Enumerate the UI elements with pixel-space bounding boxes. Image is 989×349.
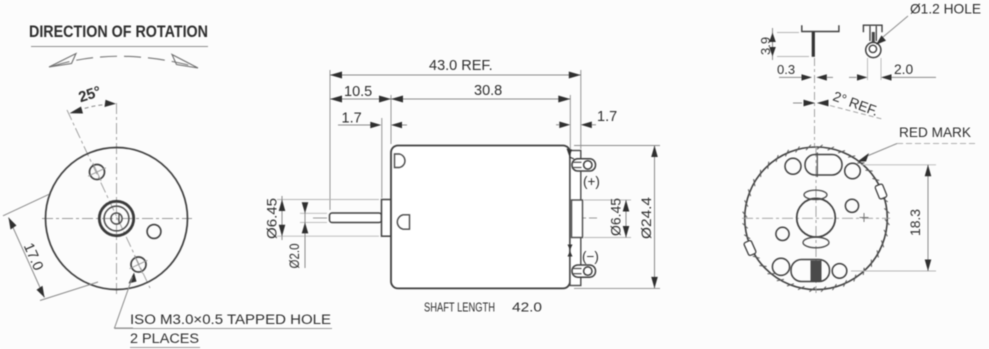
- left terminal tab: [812, 32, 815, 57]
- shaft: [330, 213, 382, 223]
- svg-text:RED MARK: RED MARK: [899, 125, 972, 140]
- dia 2.0 dimension: [300, 212, 327, 214]
- bottom-left hole: [772, 258, 789, 275]
- 10.5 dimension: [330, 98, 391, 100]
- right terminal profile: top bar: [863, 25, 882, 32]
- mid-left hole: [776, 227, 789, 240]
- svg-text:(−): (−): [582, 249, 599, 264]
- horizontal centerline: [42, 218, 192, 220]
- center boss circles: [99, 201, 133, 235]
- dia 24.4 dimension: [574, 145, 660, 147]
- horizontal centerline: [742, 217, 890, 219]
- folded tab inside: [872, 32, 875, 42]
- rim crimp hatching: [743, 145, 890, 292]
- svg-text:1.7: 1.7: [597, 109, 617, 125]
- mid-right hole: [845, 199, 858, 212]
- D notch middle: [397, 215, 409, 229]
- end cap: [570, 151, 581, 286]
- terminal bottom (side): [572, 265, 596, 277]
- 25 deg dimension arc: [78, 104, 108, 110]
- left terminal profile: top bar: [802, 25, 839, 31]
- svg-text:(+): (+): [583, 174, 600, 189]
- shaft flat chord: [118, 213, 120, 224]
- svg-text:1.7: 1.7: [342, 111, 362, 127]
- svg-text:Ø6.45: Ø6.45: [609, 198, 624, 236]
- title underline: [31, 46, 208, 48]
- 43.0 REF dimension: [330, 74, 581, 76]
- eyelet hole 1.2: [869, 45, 876, 52]
- tapped hole upper: [90, 165, 105, 180]
- shaft centerline: [313, 217, 597, 219]
- 3.9 dimension: [777, 32, 799, 34]
- terminal top (side): [572, 159, 596, 171]
- extension line step front: [381, 118, 383, 198]
- rear view circle: [745, 147, 888, 290]
- top-right hole: [845, 163, 861, 179]
- rotation double arc arrow: [53, 56, 196, 67]
- 17.0 arrows: [9, 218, 17, 230]
- ISO leader arrow: [129, 273, 137, 284]
- vertical centerline: [116, 103, 118, 296]
- svg-text:0.3: 0.3: [777, 62, 795, 77]
- bottom terminal slot: [791, 260, 830, 282]
- terminal centerline: [814, 58, 816, 146]
- 18.3 dimension: [861, 164, 936, 166]
- extension line body front: [390, 95, 392, 144]
- crimp mark bottom: [568, 245, 573, 251]
- 17.0 dimension: extension lines: [3, 194, 49, 216]
- center bearing circle: [797, 198, 836, 237]
- red mark leader: [866, 144, 897, 157]
- vertical centerline: [815, 146, 817, 293]
- svg-text:Ø24.4: Ø24.4: [639, 197, 655, 239]
- extension line shaft tip: [329, 70, 331, 210]
- svg-text:2 PLACES: 2 PLACES: [130, 331, 199, 347]
- diagonal hole-axis centerline (25 deg): [67, 110, 150, 288]
- crimp mark top: [567, 149, 573, 158]
- svg-text:SHAFT LENGTH: SHAFT LENGTH: [424, 300, 495, 315]
- motor body: [391, 146, 570, 289]
- svg-text:Ø6.45: Ø6.45: [265, 198, 280, 239]
- svg-text:ISO M3.0×0.5 TAPPED HOLE: ISO M3.0×0.5 TAPPED HOLE: [130, 312, 331, 328]
- rear bearing boss: [572, 200, 583, 238]
- 30.8 dimension: [391, 98, 570, 100]
- 2 deg REF dimension arrows: [793, 102, 802, 104]
- bottom-right hole: [832, 264, 847, 279]
- 2.0 dimension: [867, 58, 869, 80]
- oil slot below: [803, 237, 829, 248]
- extension line body rear: [569, 95, 571, 149]
- top terminal slot: [805, 155, 842, 176]
- right rim notch: [875, 184, 888, 200]
- svg-text:42.0: 42.0: [512, 300, 542, 315]
- small vent circle: [147, 225, 161, 239]
- dia 6.45 right dimension: [584, 199, 631, 201]
- brush dark band: [811, 261, 822, 282]
- svg-text:DIRECTION OF ROTATION: DIRECTION OF ROTATION: [29, 23, 208, 41]
- left rim notch: [743, 240, 756, 256]
- svg-text:10.5: 10.5: [344, 84, 372, 100]
- svg-text:30.8: 30.8: [474, 83, 502, 99]
- svg-text:2.0: 2.0: [894, 62, 914, 77]
- svg-text:Ø1.2 HOLE: Ø1.2 HOLE: [910, 2, 981, 17]
- D notch top: [395, 154, 405, 168]
- svg-text:43.0 REF.: 43.0 REF.: [429, 58, 493, 74]
- svg-text:3.9: 3.9: [758, 37, 773, 55]
- svg-text:18.3: 18.3: [908, 209, 923, 236]
- 1.7 right dimension: [556, 124, 559, 126]
- oil slot above: [804, 190, 827, 199]
- svg-text:Ø2.0: Ø2.0: [287, 243, 302, 268]
- dia 6.45 left dimension: [277, 199, 379, 201]
- 1.7 left dimension: [338, 124, 372, 126]
- eyelet: [866, 42, 881, 57]
- extension line cap rear: [580, 70, 582, 149]
- right terminal channel: [869, 26, 871, 41]
- motor outline circle: [46, 148, 188, 290]
- plus mark: [860, 217, 869, 219]
- tapped hole lower: [131, 257, 146, 272]
- top-left hole: [785, 158, 801, 174]
- leader to dia1.2 hole: [876, 35, 886, 44]
- front bearing step: [382, 200, 392, 237]
- 17.0 dimension line: [9, 218, 45, 298]
